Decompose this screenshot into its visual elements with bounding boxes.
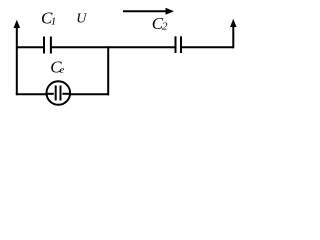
svg-text:1: 1 (51, 16, 57, 28)
svg-text:e: e (60, 65, 65, 76)
svg-text:2: 2 (162, 21, 168, 33)
svg-text:U: U (76, 12, 87, 27)
